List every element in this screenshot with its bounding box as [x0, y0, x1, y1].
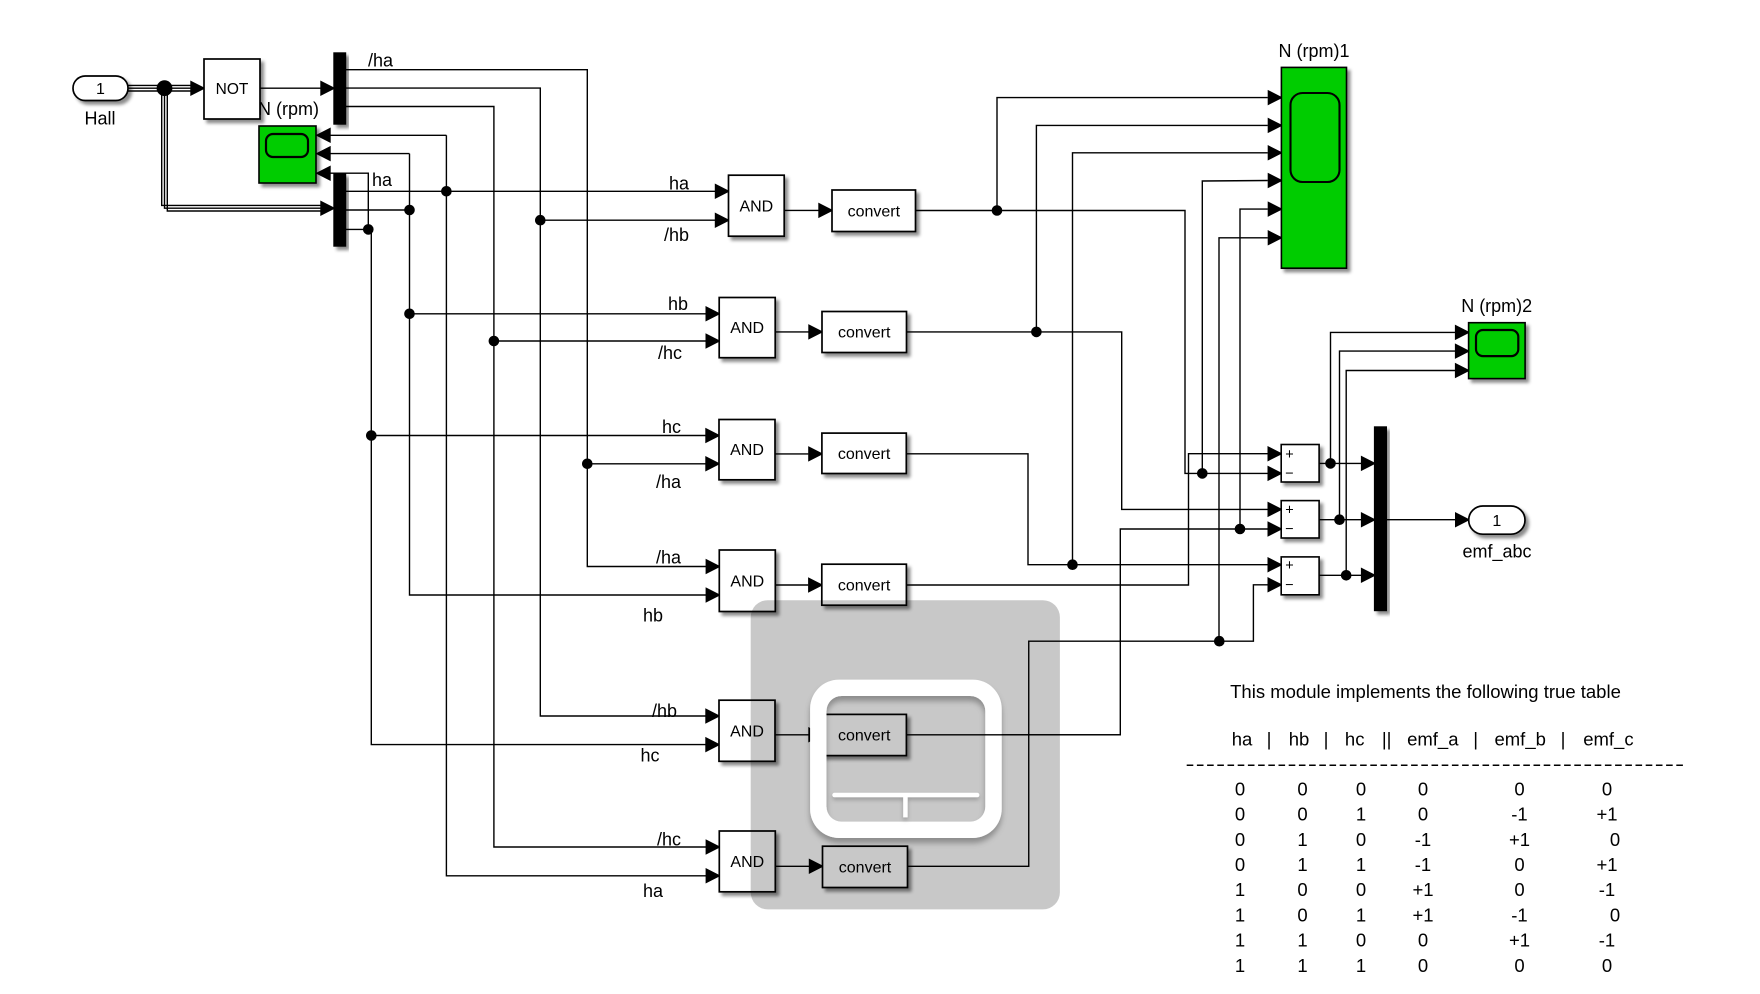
AND gate 5: [719, 700, 775, 761]
svg-text:0: 0: [1418, 804, 1428, 825]
svg-text:−: −: [1285, 522, 1293, 538]
svg-text:/hc: /hc: [657, 830, 681, 850]
sum block 1: [1281, 445, 1319, 483]
svg-text:hb: hb: [668, 294, 688, 314]
svg-text:ha: ha: [643, 881, 664, 901]
wire sum3 out net (to mux and scope2.in3): [1319, 364, 1469, 582]
svg-text:Hall: Hall: [84, 109, 115, 129]
wire conv2 out net (to scope1.in2 and sum2.in+): [907, 119, 1282, 516]
wire mux out: [1386, 519, 1455, 521]
svg-text:-1: -1: [1599, 879, 1615, 900]
svg-text:/hc: /hc: [658, 343, 682, 363]
svg-text:1: 1: [1235, 904, 1245, 925]
svg-text:N (rpm): N (rpm): [258, 99, 319, 119]
svg-text:emf_c: emf_c: [1583, 729, 1633, 751]
svg-text:|: |: [1267, 729, 1272, 750]
svg-text:0: 0: [1514, 854, 1524, 875]
svg-text:-1: -1: [1599, 930, 1615, 951]
wire hc net (bar2 to AND3.in1, AND5.in2, scope): [317, 167, 719, 752]
svg-text:hc: hc: [1345, 729, 1365, 750]
svg-text:+1: +1: [1509, 829, 1530, 850]
svg-text:-1: -1: [1511, 804, 1527, 825]
svg-text:0: 0: [1235, 829, 1245, 850]
svg-text:0: 0: [1418, 930, 1428, 951]
wire conv3 out net (to scope1.in3 and sum3.in+): [906, 146, 1281, 571]
scope N (rpm): [259, 126, 316, 183]
scope N (rpm)1: [1281, 67, 1346, 268]
svg-text:-1: -1: [1511, 904, 1527, 925]
svg-text:|: |: [1561, 729, 1566, 750]
arrow into bar1: [321, 82, 334, 95]
svg-text:1: 1: [1356, 804, 1366, 825]
arrow into convert2: [809, 325, 822, 338]
svg-text:hc: hc: [662, 417, 681, 437]
svg-text:|: |: [1473, 729, 1478, 750]
svg-text:ha: ha: [372, 170, 393, 190]
svg-text:1: 1: [1297, 955, 1307, 976]
svg-text:emf_abc: emf_abc: [1462, 542, 1531, 563]
svg-text:0: 0: [1514, 955, 1524, 976]
svg-text:0: 0: [1610, 904, 1620, 925]
svg-text:0: 0: [1418, 955, 1428, 976]
svg-text:1: 1: [1356, 904, 1366, 925]
svg-text:+: +: [1285, 558, 1293, 574]
truth table rows: [1235, 778, 1620, 975]
convert block 1: [832, 190, 916, 232]
svg-text:+1: +1: [1412, 879, 1433, 900]
svg-text:AND: AND: [739, 198, 773, 215]
arrow into bar2: [321, 202, 334, 215]
wire hall bus horizontal: [128, 85, 192, 91]
wire conv4 out net (to sum1.in+): [906, 447, 1281, 585]
arrow into convert6: [810, 860, 823, 873]
overlay white frame: [810, 680, 1002, 838]
wire hb net (bar2 to AND2.in1, AND4.in2, scope): [317, 147, 719, 602]
svg-text:0: 0: [1297, 879, 1307, 900]
convert block 6: [823, 846, 908, 887]
svg-text:+1: +1: [1596, 804, 1617, 825]
sum block 3: [1281, 557, 1319, 595]
wire conv1 out net (to scope1.in1 and sum1.in-): [916, 91, 1282, 480]
truth table header: [1232, 729, 1634, 751]
wire AND6 to convert6: [775, 865, 809, 867]
svg-text:-1: -1: [1415, 854, 1431, 875]
svg-text:+1: +1: [1412, 904, 1433, 925]
svg-text:0: 0: [1514, 778, 1524, 799]
svg-text:AND: AND: [730, 320, 764, 337]
svg-text:0: 0: [1297, 904, 1307, 925]
convert block 4: [822, 564, 907, 605]
svg-text:emf_a: emf_a: [1407, 729, 1459, 751]
arrow into outport: [1456, 513, 1469, 526]
AND gate 4: [719, 550, 775, 612]
svg-text:1: 1: [1235, 955, 1245, 976]
svg-text:convert: convert: [838, 446, 891, 463]
svg-text:||: ||: [1382, 729, 1392, 750]
svg-text:ha: ha: [669, 174, 690, 194]
NOT gate U1: [204, 59, 260, 119]
wire sum1 out net (to mux and scope2.in1): [1319, 326, 1469, 470]
truth table separator: [1187, 764, 1684, 766]
svg-text:N (rpm)1: N (rpm)1: [1279, 41, 1350, 61]
svg-text:hb: hb: [1289, 729, 1310, 750]
inport Hall (1): [73, 76, 128, 101]
wire sum2 out net (to mux and scope2.in2): [1319, 345, 1469, 527]
svg-text:0: 0: [1297, 778, 1307, 799]
wire AND2 to convert2: [775, 331, 808, 333]
svg-text:0: 0: [1235, 804, 1245, 825]
svg-text:hc: hc: [641, 746, 660, 766]
svg-text:1: 1: [1356, 955, 1366, 976]
wire AND1 to convert1: [784, 209, 818, 211]
svg-text:0: 0: [1356, 879, 1366, 900]
svg-text:convert: convert: [838, 577, 891, 594]
svg-text:1: 1: [1235, 879, 1245, 900]
overlay trackpad divider: [832, 793, 979, 818]
svg-text:-1: -1: [1415, 829, 1431, 850]
sum block 2: [1281, 501, 1319, 538]
svg-text:emf_b: emf_b: [1494, 729, 1545, 751]
wire ha net (bar2 to AND1.in1, AND6.in2, scope): [317, 129, 729, 883]
wire /hb net (bar1 to AND1.in2 and AND5.in1): [346, 88, 729, 723]
wire conv5 out net (to scope1.in5 and sum2.in-): [906, 203, 1281, 735]
AND gate 2: [719, 298, 775, 358]
svg-text:/hb: /hb: [652, 701, 677, 721]
svg-text:hb: hb: [643, 606, 663, 626]
svg-text:1: 1: [1492, 513, 1501, 530]
svg-text:/ha: /ha: [656, 548, 682, 568]
svg-text:+1: +1: [1596, 854, 1617, 875]
svg-text:1: 1: [1297, 930, 1307, 951]
svg-text:N (rpm)2: N (rpm)2: [1461, 296, 1532, 316]
svg-text:0: 0: [1356, 930, 1366, 951]
svg-text:0: 0: [1610, 829, 1620, 850]
svg-text:0: 0: [1356, 778, 1366, 799]
svg-text:−: −: [1285, 466, 1293, 482]
AND gate 1: [729, 175, 785, 236]
wire AND4 to convert4: [775, 584, 808, 586]
scope N (rpm)2: [1469, 323, 1526, 379]
svg-text:1: 1: [96, 81, 105, 98]
svg-text:ha: ha: [1232, 729, 1253, 750]
wire hall bus branch down to bar2: [162, 85, 322, 211]
svg-text:/ha: /ha: [368, 51, 394, 71]
demux bar1: [334, 53, 346, 124]
mux bar: [1375, 427, 1387, 611]
wire /ha net (bar1 to AND3.in2 and AND4.in1): [346, 70, 720, 573]
outport emf_abc (1): [1469, 506, 1525, 534]
svg-text:0: 0: [1235, 778, 1245, 799]
svg-text:convert: convert: [838, 325, 891, 342]
svg-text:0: 0: [1356, 829, 1366, 850]
arrow into NOT: [191, 82, 204, 95]
AND gate 3: [719, 420, 775, 480]
wire AND3 to convert3: [775, 453, 808, 455]
svg-text:convert: convert: [848, 203, 901, 220]
svg-text:/ha: /ha: [656, 472, 682, 492]
wire AND5 to convert5: [775, 734, 809, 736]
wire NOT out: [260, 87, 321, 89]
svg-text:1: 1: [1356, 854, 1366, 875]
svg-text:AND: AND: [730, 573, 764, 590]
convert block 5: [822, 714, 906, 755]
wire conv6 out net (to scope1.in6 and sum3.in-): [908, 231, 1282, 866]
arrow into convert4: [809, 578, 822, 591]
junction hall bus: [157, 81, 171, 95]
svg-text:0: 0: [1235, 854, 1245, 875]
svg-text:1: 1: [1297, 854, 1307, 875]
convert block 3: [822, 433, 906, 473]
svg-text:0: 0: [1297, 804, 1307, 825]
arrow into convert1: [819, 204, 832, 217]
arrow into convert3: [809, 447, 822, 460]
svg-text:+: +: [1285, 503, 1293, 519]
svg-text:0: 0: [1418, 778, 1428, 799]
wire conv5 out over frame: [985, 734, 1121, 736]
svg-text:|: |: [1324, 729, 1329, 750]
svg-text:AND: AND: [730, 442, 764, 459]
svg-text:NOT: NOT: [216, 81, 249, 98]
wire /hc net (bar1 to AND2.in2 and AND6.in1): [346, 107, 720, 854]
svg-text:0: 0: [1514, 879, 1524, 900]
svg-text:0: 0: [1602, 778, 1612, 799]
svg-text:+1: +1: [1509, 930, 1530, 951]
svg-text:−: −: [1285, 577, 1293, 593]
demux bar2: [334, 174, 346, 246]
svg-text:+: +: [1285, 447, 1293, 463]
svg-text:0: 0: [1602, 955, 1612, 976]
arrow into convert5: [809, 728, 822, 741]
svg-text:This module implements the fol: This module implements the following tru…: [1230, 681, 1621, 702]
overlay gray panel: [751, 600, 1060, 909]
svg-text:/hb: /hb: [664, 225, 689, 245]
svg-text:1: 1: [1235, 930, 1245, 951]
svg-text:1: 1: [1297, 829, 1307, 850]
convert block 2: [822, 312, 907, 353]
AND gate 6: [719, 831, 775, 892]
